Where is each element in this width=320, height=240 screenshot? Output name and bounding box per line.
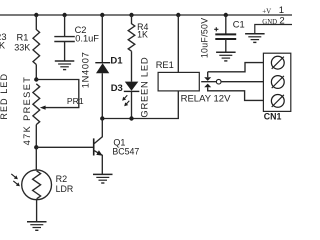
svg-text:2: 2 <box>279 16 284 27</box>
svg-text:LDR: LDR <box>56 184 74 194</box>
svg-text:D1: D1 <box>110 55 123 66</box>
CN1 screw terminal <box>271 95 284 108</box>
node dot R1/PR1 junction <box>34 77 38 81</box>
svg-text:33K: 33K <box>14 43 30 53</box>
svg-text:1: 1 <box>279 5 284 16</box>
svg-text:+V: +V <box>262 7 271 15</box>
resistor R1 <box>33 15 40 80</box>
relay contact NC (top) <box>207 72 209 77</box>
LED D3 green <box>125 82 139 91</box>
svg-text:C1: C1 <box>233 19 245 29</box>
svg-text:0.1uF: 0.1uF <box>75 34 99 44</box>
wire NC to CN1 pin1 <box>208 63 264 72</box>
node dots on collector wire <box>100 116 104 120</box>
svg-text:RED LED: RED LED <box>0 73 9 120</box>
preset PR1 rheostat <box>33 84 40 148</box>
wire PR1 wiper loop <box>36 80 79 108</box>
wire +V top rail <box>0 14 292 16</box>
svg-text:1N4007: 1N4007 <box>81 52 91 89</box>
svg-text:RE1: RE1 <box>156 60 174 70</box>
svg-text:PR1: PR1 <box>67 96 84 106</box>
svg-text:GND: GND <box>262 19 277 26</box>
capacitor C1 electrolytic <box>225 15 227 34</box>
svg-text:CN1: CN1 <box>264 112 282 122</box>
svg-text:10uF/50V: 10uF/50V <box>199 18 209 59</box>
node junction dots on +V rail <box>34 13 38 17</box>
svg-text:GREEN LED: GREEN LED <box>138 57 149 118</box>
svg-text:10K: 10K <box>0 41 6 51</box>
LDR R2 <box>35 147 37 170</box>
PR1 wiper arrowhead <box>40 106 46 110</box>
relay RE1 coil <box>177 15 179 72</box>
Q1 emitter arrowhead <box>96 150 102 155</box>
svg-text:47K PRESET: 47K PRESET <box>22 76 32 146</box>
CN1 screw terminal <box>271 56 284 69</box>
svg-text:R2: R2 <box>56 174 68 184</box>
svg-text:RELAY 12V: RELAY 12V <box>181 93 231 104</box>
transistor Q1 BC547 <box>93 138 95 155</box>
diode D1 1N4007 <box>101 15 103 63</box>
resistor R4 <box>128 15 135 82</box>
svg-text:R1: R1 <box>17 33 29 43</box>
capacitor C2 <box>64 15 66 36</box>
connector CN1 <box>263 53 290 111</box>
ground (LDR) <box>27 221 47 223</box>
relay contact common pole <box>201 81 216 83</box>
svg-text:BC547: BC547 <box>112 147 139 157</box>
svg-text:1K: 1K <box>137 30 148 40</box>
D3 emission arrows <box>123 95 127 99</box>
wire LDR to ground <box>36 200 38 222</box>
ground (C2) <box>55 60 75 62</box>
ground (Q1 emitter) <box>93 173 113 175</box>
C1 plus sign <box>214 27 218 31</box>
CN1 screw terminal <box>271 76 284 89</box>
LDR light arrows <box>11 174 16 179</box>
wire GND pin 2 <box>255 25 292 34</box>
wire base node to Q1 <box>36 146 93 148</box>
ground (C1) <box>216 51 236 53</box>
node dot base junction <box>34 145 38 149</box>
relay contact NO (bottom) <box>204 84 211 88</box>
svg-text:D3: D3 <box>111 83 123 94</box>
ground (pin2) <box>245 33 265 35</box>
wire collector node rail <box>102 91 178 119</box>
